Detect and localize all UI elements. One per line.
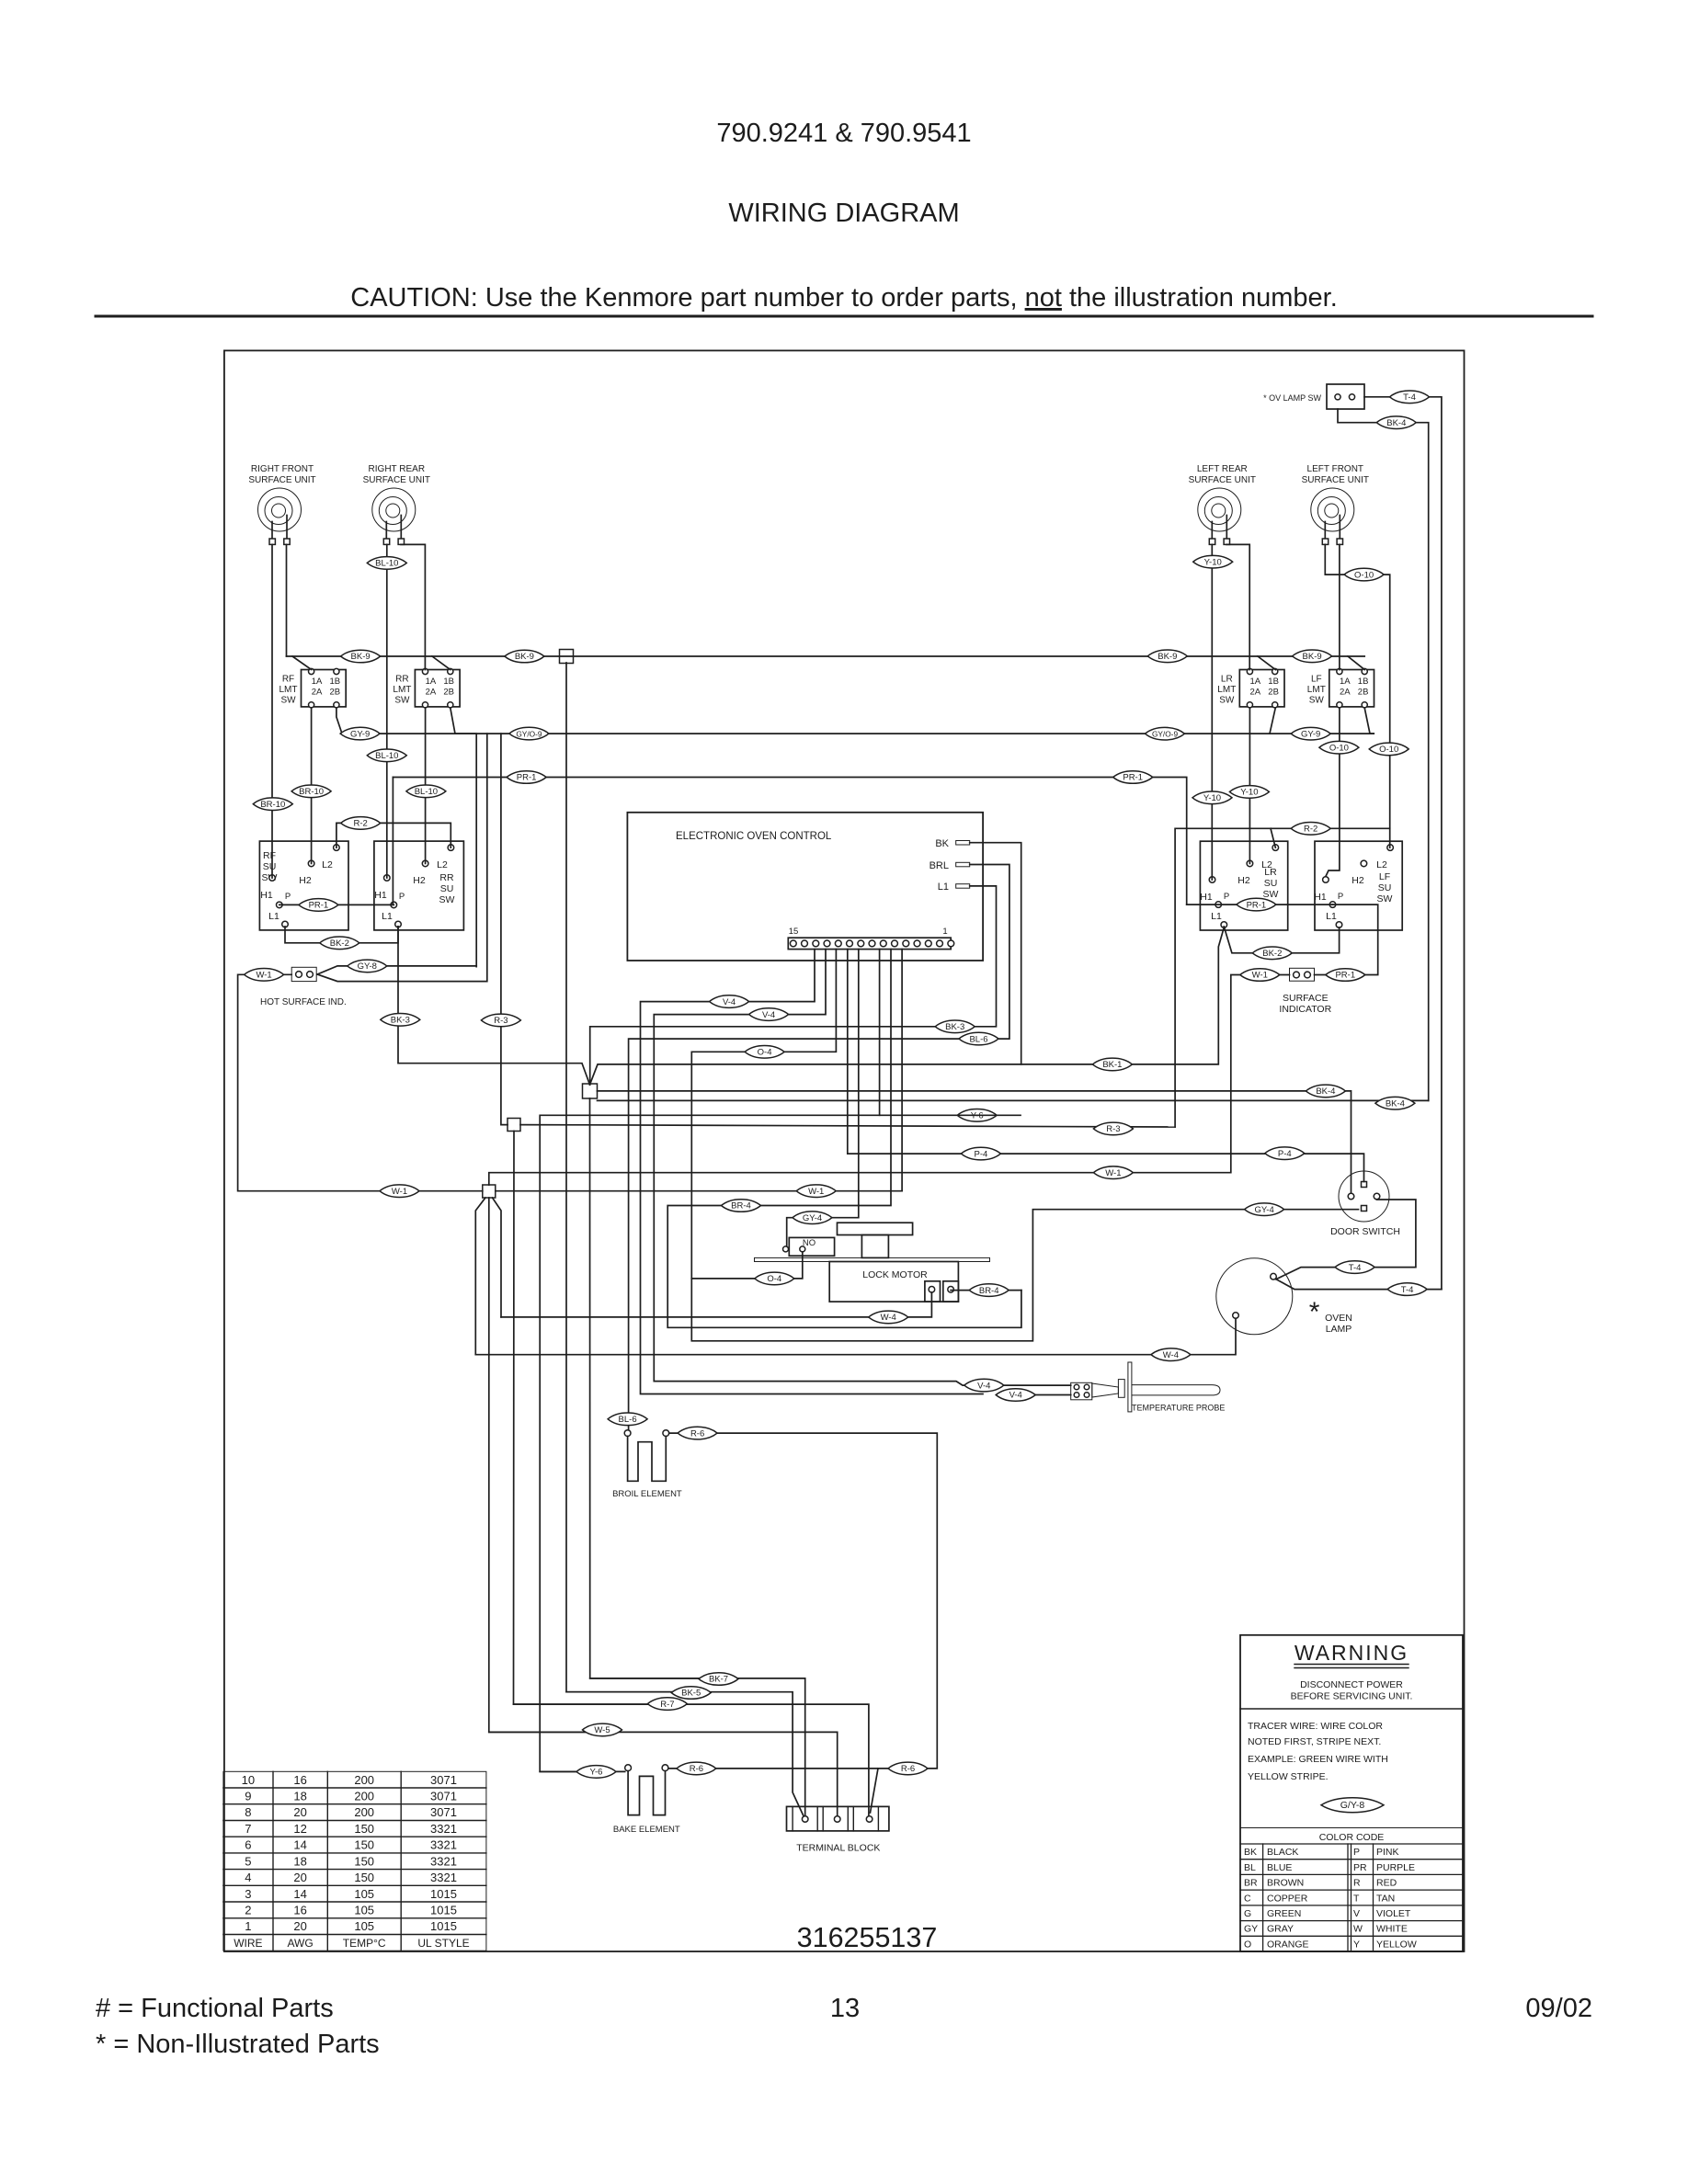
LF surface switch pin H2 (1361, 860, 1367, 867)
hot surface indicator lamp box (left) (291, 967, 316, 981)
svg-text:150: 150 (354, 1838, 374, 1852)
svg-text:CAUTION: Use the Kenmore part: CAUTION: Use the Kenmore part number to … (350, 283, 1338, 313)
svg-text:H1: H1 (260, 890, 273, 901)
svg-text:GRAY: GRAY (1267, 1924, 1294, 1935)
wire label V-4 c (964, 1379, 1004, 1392)
svg-text:O-10: O-10 (1354, 570, 1374, 580)
wire label BK-4 door (1306, 1085, 1345, 1098)
svg-text:W-1: W-1 (808, 1187, 824, 1197)
svg-text:BK-3: BK-3 (945, 1022, 964, 1032)
svg-text:TERMINAL BLOCK: TERMINAL BLOCK (796, 1843, 880, 1854)
svg-text:BR-10: BR-10 (260, 800, 285, 810)
right rear surface unit coil (372, 488, 416, 544)
lock motor body (829, 1262, 958, 1302)
LR surface switch box (1200, 841, 1287, 930)
wire GY-9 left segment (336, 708, 476, 967)
LF surface switch pin P (1329, 902, 1336, 908)
svg-text:T-4: T-4 (1403, 392, 1416, 403)
temperature probe flange bar (1128, 1362, 1132, 1412)
svg-text:G: G (1244, 1908, 1251, 1919)
wire R-2 left bus (336, 823, 451, 847)
wire D-4 from NO pin 2 (691, 1252, 803, 1279)
svg-text:BK-4: BK-4 (1386, 418, 1406, 428)
svg-text:O-10: O-10 (1329, 743, 1349, 753)
wire BR-4 motor pin segment (951, 1290, 1021, 1291)
lock motor top bracket (838, 1223, 913, 1234)
svg-text:Y-10: Y-10 (1204, 557, 1222, 567)
wire label BR-4 b (969, 1284, 1009, 1297)
warning box frame (1240, 1635, 1463, 1951)
right front surface unit coil (258, 488, 302, 544)
svg-text:YELLOW: YELLOW (1376, 1939, 1417, 1950)
wire V-4 pin drop b (654, 950, 1070, 1386)
RF surface switch box (259, 841, 348, 930)
svg-text:W: W (1353, 1924, 1363, 1935)
horizontal rule under caution (96, 315, 1592, 318)
wire label O-4 (745, 1046, 784, 1059)
RR surface switch pin H2 (422, 860, 428, 867)
svg-text:H2: H2 (413, 875, 426, 886)
svg-text:3321: 3321 (430, 1871, 457, 1884)
oven lamp pin top (1271, 1273, 1277, 1280)
door switch pin top (1362, 1182, 1367, 1188)
wire W-1 right bus from sq3 (489, 975, 1290, 1186)
wire RF unit right pin to BK-9 bus (286, 544, 288, 656)
svg-text:P: P (1338, 892, 1343, 902)
svg-text:BL-10: BL-10 (375, 751, 398, 761)
lock motor stem (861, 1235, 888, 1258)
door switch body (1339, 1171, 1389, 1222)
svg-text:10: 10 (242, 1773, 255, 1787)
wire BK-1 from right L1s to sq1 (590, 927, 1225, 1085)
RF surface switch pin L2 (334, 845, 340, 851)
svg-text:GY: GY (1244, 1924, 1258, 1935)
svg-text:L2: L2 (1376, 859, 1387, 870)
temperature probe fitting (1118, 1380, 1124, 1398)
svg-text:150: 150 (354, 1871, 374, 1884)
wire BK junction drop to BK-5 (566, 663, 692, 1692)
svg-text:R-7: R-7 (660, 1700, 674, 1710)
svg-text:P: P (399, 892, 405, 902)
svg-text:BK-4: BK-4 (1386, 1098, 1405, 1109)
svg-text:LOCK MOTOR: LOCK MOTOR (862, 1269, 928, 1280)
wire sq3 diag leg to motor W-4 (493, 1198, 502, 1317)
wire label GY-4 door (1245, 1203, 1284, 1216)
svg-text:O: O (1244, 1939, 1251, 1950)
wire R-6 diag to terminal pin 3 (871, 1769, 879, 1813)
svg-text:R-2: R-2 (1304, 825, 1317, 835)
svg-text:1015: 1015 (430, 1887, 457, 1901)
svg-text:T: T (1353, 1893, 1360, 1904)
wire V-4 pin drop a (641, 950, 984, 1394)
wire label T-4 b (1387, 1283, 1427, 1296)
svg-text:TAN: TAN (1376, 1893, 1395, 1904)
svg-text:14: 14 (293, 1838, 306, 1852)
LR surface switch pin H2 (1247, 860, 1253, 867)
wire W-5 bus (489, 1732, 838, 1815)
oven lamp switch pin 1 (1335, 394, 1340, 400)
EOC connector body (788, 938, 951, 949)
wire PR-1 drop to RR P (392, 778, 393, 905)
svg-text:3071: 3071 (430, 1773, 457, 1787)
svg-text:SURFACEINDICATOR: SURFACEINDICATOR (1279, 993, 1331, 1015)
svg-text:PR-1: PR-1 (1335, 971, 1355, 981)
wire label BL-10 mid (367, 749, 406, 762)
wire label BL-10 low (406, 785, 446, 798)
svg-text:1B2B: 1B2B (1268, 677, 1279, 698)
wire label BK-9 b (505, 650, 544, 663)
oven lamp pin bottom (1233, 1313, 1239, 1319)
warning divider (1240, 1708, 1463, 1710)
wire label BK-4 lampsw (1375, 1097, 1415, 1109)
svg-text:BROIL ELEMENT: BROIL ELEMENT (612, 1489, 682, 1499)
LR surface switch pin L2 (1272, 845, 1279, 851)
svg-text:18: 18 (293, 1854, 306, 1868)
wire R-3 vertical into sq2 (501, 734, 508, 1125)
wire V-4 d segment (998, 1394, 1071, 1396)
wire Y-6 pin drop bus (540, 950, 879, 1772)
LR surface switch pin P (1215, 902, 1222, 908)
wire sq1 to BK-7 (590, 1098, 721, 1678)
wire PR-1 row RF to RR (279, 904, 394, 905)
svg-text:V-4: V-4 (1009, 1391, 1022, 1401)
svg-text:BK-7: BK-7 (709, 1675, 728, 1685)
wire label GY-9 right (1291, 727, 1330, 740)
svg-text:COPPER: COPPER (1267, 1893, 1308, 1904)
wire PR-1 long bus (393, 778, 1186, 905)
svg-text:BK-9: BK-9 (351, 652, 371, 662)
wire label Y-10 mid (1192, 791, 1232, 804)
svg-text:G/Y-8: G/Y-8 (1340, 1800, 1365, 1811)
wire label BL-6 a (959, 1032, 998, 1045)
svg-text:BRL: BRL (930, 860, 949, 871)
svg-text:WIRING DIAGRAM: WIRING DIAGRAM (728, 199, 959, 228)
wire label BK-1 (1092, 1058, 1132, 1071)
svg-text:L2: L2 (437, 859, 448, 870)
svg-text:COLOR CODE: COLOR CODE (1319, 1832, 1385, 1843)
surface indicator lamp box (right) (1290, 968, 1315, 981)
wire gauge table (223, 1771, 486, 1951)
svg-text:H2: H2 (299, 875, 312, 886)
wire label BK-7 (699, 1673, 738, 1686)
svg-text:P-4: P-4 (975, 1149, 988, 1159)
svg-text:1B2B: 1B2B (1358, 677, 1369, 698)
RF surface switch pin L1 (282, 921, 289, 927)
wire EOC BK to BK-1 bus (970, 843, 1021, 1064)
svg-text:R-2: R-2 (354, 819, 368, 829)
svg-text:BK-9: BK-9 (515, 652, 534, 662)
wire sq3 leg to W-5 (489, 1198, 602, 1732)
temperature probe connector block (1071, 1382, 1092, 1400)
svg-text:V-4: V-4 (723, 997, 736, 1007)
wire Y-6 bake segment (540, 1770, 625, 1772)
svg-text:1015: 1015 (430, 1904, 457, 1917)
wire label BK-9 a (341, 650, 381, 663)
svg-text:3071: 3071 (430, 1790, 457, 1803)
lock motor pin 1 (929, 1287, 935, 1293)
svg-text:BROWN: BROWN (1267, 1878, 1304, 1889)
wire LF 2B diag to gray bus (1364, 708, 1374, 734)
svg-text:AWG: AWG (287, 1937, 313, 1950)
wire label BK-3 right (935, 1020, 975, 1033)
terminal block pin 3 (866, 1816, 873, 1823)
lock motor pin cell 1 (925, 1281, 941, 1302)
LR limit switch pin 1B (1272, 668, 1278, 674)
bake element pin left (625, 1765, 632, 1771)
wire RF unit left pin to H1 (271, 544, 273, 878)
svg-text:BL: BL (1244, 1862, 1256, 1873)
EOC terminal stub L1 (956, 884, 970, 889)
wire BK-4 bus sq1 to lamp switch riser (598, 1099, 1429, 1101)
svg-text:W-4: W-4 (881, 1313, 896, 1323)
svg-text:105: 105 (354, 1919, 374, 1933)
svg-text:PR-1: PR-1 (309, 901, 329, 911)
wire label W-4 lamp (1151, 1348, 1191, 1361)
svg-text:GY/O-9: GY/O-9 (1152, 729, 1179, 738)
svg-text:*: * (1309, 1297, 1320, 1327)
svg-text:GY-9: GY-9 (1301, 729, 1320, 739)
wire label R-6 right (888, 1762, 928, 1775)
terminal block divider 1 (792, 1806, 793, 1831)
RF limit switch pin 1A (309, 668, 314, 674)
svg-text:105: 105 (354, 1904, 374, 1917)
wire label R-2 left (341, 817, 381, 830)
terminal block outer (787, 1806, 889, 1831)
svg-text:O-4: O-4 (758, 1048, 772, 1058)
wire label R-2 right (1291, 823, 1330, 836)
terminal block pin 1 (802, 1816, 808, 1823)
wire label PR-1 bus right (1113, 771, 1153, 784)
junction square sq1 black net (583, 1084, 598, 1098)
svg-text:LRSUSW: LRSUSW (1263, 867, 1279, 900)
wire LR 2B diag to gray bus (1270, 708, 1275, 734)
oven lamp body (1216, 1258, 1293, 1335)
svg-text:LEFT FRONTSURFACE UNIT: LEFT FRONTSURFACE UNIT (1302, 464, 1369, 485)
wire label W-1 mid (380, 1185, 419, 1198)
svg-text:ELECTRONIC OVEN CONTROL: ELECTRONIC OVEN CONTROL (676, 831, 832, 842)
svg-text:BL-10: BL-10 (375, 559, 398, 569)
lock motor rail bar (755, 1257, 990, 1261)
wire R-6 broil to bake (669, 1433, 938, 1769)
svg-text:09/02: 09/02 (1525, 1994, 1592, 2023)
wire BK-9 diag to LR 1B (1258, 656, 1275, 670)
svg-text:RRSUSW: RRSUSW (439, 872, 455, 905)
svg-text:1: 1 (245, 1919, 251, 1933)
wire label Y-6 bake (576, 1766, 616, 1779)
wire GY/O-9 long bus (317, 708, 487, 982)
LR surface switch pin H1 (1209, 877, 1215, 883)
svg-text:PR: PR (1353, 1862, 1367, 1873)
LR limit switch pin 1A (1247, 668, 1252, 674)
wire label W-1 left (245, 969, 284, 982)
wire label P-4 a (961, 1147, 1000, 1160)
wire label BR-10 left (253, 798, 292, 811)
svg-text:R-3: R-3 (494, 1016, 508, 1026)
svg-text:RED: RED (1376, 1878, 1397, 1889)
svg-text:GY-9: GY-9 (350, 729, 370, 739)
wire label O-4 motor (755, 1272, 794, 1285)
svg-text:16: 16 (293, 1773, 306, 1787)
LF limit switch box (1329, 670, 1374, 707)
LF limit switch pin 1B (1362, 668, 1367, 674)
junction square sq3 white net (483, 1185, 496, 1198)
svg-text:R-6: R-6 (690, 1764, 703, 1774)
svg-text:C: C (1244, 1893, 1251, 1904)
svg-text:PR-1: PR-1 (1123, 773, 1143, 783)
terminal block divider 3 (822, 1806, 824, 1831)
wire LF unit right pin down to LF 1A (1339, 544, 1340, 669)
svg-text:DISCONNECT POWERBEFORE SERVICI: DISCONNECT POWERBEFORE SERVICING UNIT. (1291, 1679, 1413, 1702)
svg-text:Y-10: Y-10 (1240, 788, 1258, 798)
svg-text:TEMPERATURE PROBE: TEMPERATURE PROBE (1132, 1404, 1225, 1413)
svg-text:WHITE: WHITE (1376, 1924, 1408, 1935)
wire label W-5 (583, 1723, 622, 1736)
LR surface switch pin L1 (1221, 922, 1227, 928)
wire BK-3 from left L1s to sq1 (398, 927, 590, 1085)
svg-text:200: 200 (354, 1790, 374, 1803)
wire label O-10 top (1344, 568, 1384, 581)
svg-text:P: P (285, 892, 291, 902)
svg-text:GY/O-9: GY/O-9 (516, 729, 542, 738)
terminal block pin 2 (834, 1816, 840, 1823)
wire PR-1 LF P to indicator (1315, 904, 1378, 974)
wire PR-1 row LR to LF (1187, 904, 1333, 905)
RR limit switch pin 2B (448, 702, 453, 708)
wire label Y-6 top (957, 1109, 997, 1122)
wire T-4 lamp to right riser (1276, 1280, 1442, 1290)
wire label R-6 bake (677, 1762, 716, 1775)
wire label BR-4 a (722, 1200, 761, 1212)
wire LR unit right pin to LR 1A (1226, 544, 1249, 669)
wire label W-4 motor (869, 1311, 908, 1324)
svg-text:2: 2 (245, 1904, 251, 1917)
svg-text:3: 3 (245, 1887, 251, 1901)
wire GY-9 into indicator (317, 966, 476, 974)
svg-text:T-4: T-4 (1349, 1263, 1362, 1273)
terminal block divider 2 (816, 1806, 818, 1831)
svg-text:BK-5: BK-5 (681, 1689, 701, 1699)
svg-text:H1: H1 (374, 890, 387, 901)
svg-text:BLUE: BLUE (1267, 1862, 1292, 1873)
wire R-7 bus (514, 1704, 869, 1816)
broil element coil (628, 1437, 667, 1482)
wire Y-6 bus right stub (880, 1114, 1021, 1116)
svg-text:20: 20 (293, 1871, 306, 1884)
wire T-4 from lamp switch to right drop (1364, 397, 1442, 1290)
junction square BK-9 bus (560, 650, 574, 664)
svg-text:GY-4: GY-4 (1254, 1205, 1273, 1215)
RF limit switch box (302, 670, 347, 707)
wire BR-4 pin drop bus (667, 950, 1021, 1328)
svg-text:R-6: R-6 (901, 1764, 915, 1774)
svg-text:P: P (1224, 892, 1229, 902)
wire BK-2 left (285, 927, 398, 943)
svg-text:BK: BK (1244, 1847, 1257, 1858)
svg-text:150: 150 (354, 1822, 374, 1836)
color code table (1240, 1828, 1463, 1952)
bake element coil (628, 1771, 665, 1815)
wire sq3 diag leg to lamp W-4 (475, 1198, 485, 1355)
terminal block divider 4 (847, 1806, 849, 1831)
svg-text:14: 14 (293, 1887, 306, 1901)
wire W-4 lamp (475, 1318, 1236, 1354)
svg-text:W-1: W-1 (1105, 1168, 1121, 1178)
temperature probe taper (1092, 1383, 1119, 1397)
wire label R-6 broil (678, 1427, 717, 1439)
wire label R-3 vertical (481, 1014, 520, 1027)
wire label BK-3 left (381, 1014, 420, 1027)
RR limit switch pin 1A (422, 668, 428, 674)
svg-text:BR-4: BR-4 (979, 1286, 999, 1296)
wire label R-7 (647, 1698, 687, 1711)
svg-text:P-4: P-4 (1278, 1149, 1292, 1159)
wire sq2 leg to R-7 (514, 1132, 667, 1705)
svg-text:BR-10: BR-10 (299, 787, 324, 797)
bake element pin right (662, 1765, 668, 1771)
svg-text:* = Non-Illustrated Parts: * = Non-Illustrated Parts (96, 2030, 380, 2059)
LF limit switch pin 1A (1337, 668, 1342, 674)
svg-text:20: 20 (293, 1919, 306, 1933)
wire LR L2 diag to R-2 (1271, 828, 1275, 847)
wire R-2 right bus (1175, 828, 1390, 1127)
wire label BK-9 c (1147, 650, 1187, 663)
wire RR unit left pin down to H1 (386, 544, 388, 878)
svg-text:O-4: O-4 (767, 1274, 781, 1284)
LF surface switch pin L1 (1336, 922, 1342, 928)
svg-text:200: 200 (354, 1805, 374, 1819)
wire P-4 pin drop bus (848, 950, 1364, 1182)
wire W-4 motor (501, 1292, 931, 1317)
svg-text:UL STYLE: UL STYLE (417, 1937, 469, 1950)
svg-text:GREEN: GREEN (1267, 1908, 1301, 1919)
wire label GY-8 ind (348, 960, 387, 973)
EOC terminal stub BRL (956, 862, 970, 867)
RR surface switch pin L1 (395, 921, 402, 927)
wire label BL-10 top (367, 557, 406, 570)
svg-text:BK-9: BK-9 (1303, 652, 1322, 662)
terminal block divider 6 (877, 1806, 879, 1831)
door switch pin bottom (1362, 1206, 1367, 1211)
svg-text:LFSUSW: LFSUSW (1377, 871, 1393, 904)
RF surface switch pin H1 (269, 875, 276, 882)
wire W-1 left from indicator (238, 974, 483, 1190)
EOC connector pin circles (790, 940, 953, 947)
wire RF 2A to H2 BR-10 (311, 708, 313, 863)
electronic oven control box (627, 813, 983, 961)
wire label GY-4 motor (793, 1211, 832, 1224)
LF limit switch pin 2A (1337, 702, 1342, 708)
svg-text:1A2A: 1A2A (426, 677, 437, 698)
wire label Y-10 low (1229, 786, 1269, 799)
RF limit switch pin 2B (334, 702, 339, 708)
wire label PR-1 left row (299, 899, 338, 912)
temperature probe shaft (1132, 1385, 1220, 1395)
svg-text:3071: 3071 (430, 1805, 457, 1819)
wire label Y-10 top (1193, 555, 1233, 568)
LF surface switch box (1315, 841, 1402, 930)
svg-text:ORANGE: ORANGE (1267, 1939, 1309, 1950)
svg-text:GY-4: GY-4 (803, 1213, 822, 1223)
svg-text:W-1: W-1 (392, 1187, 407, 1197)
wire BK-7 bus (590, 1678, 805, 1816)
wire W-1 bus sq3 to EOC pin (496, 1190, 902, 1192)
wire label GY/O-9 mid (509, 727, 549, 740)
svg-text:VIOLET: VIOLET (1376, 1908, 1411, 1919)
svg-text:12: 12 (293, 1822, 306, 1836)
svg-text:1B2B: 1B2B (443, 677, 454, 698)
svg-text:1015: 1015 (430, 1919, 457, 1933)
svg-text:1B2B: 1B2B (330, 677, 341, 698)
